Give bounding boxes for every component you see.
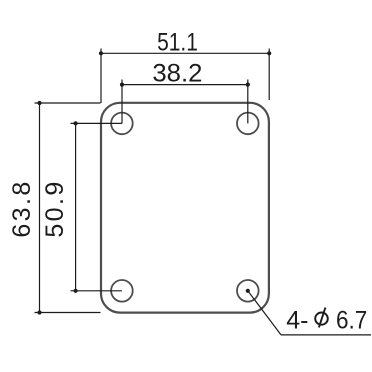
neck plate outline xyxy=(101,103,269,313)
leader dot at bottom-right hole center xyxy=(246,289,250,293)
leader line horizontal xyxy=(281,334,371,336)
hole top-left xyxy=(111,113,133,135)
dimension 38.2 extension line left xyxy=(121,80,123,124)
dimension 38.2 end dot left xyxy=(120,83,124,87)
hole top-right xyxy=(237,113,259,135)
dimension 51.1 extension line left xyxy=(100,49,102,104)
dimension 38.2 extension line right xyxy=(247,80,249,124)
dimension 50.9 extension line bottom xyxy=(71,290,122,292)
dimension 51.1 end dot left xyxy=(99,51,103,55)
dimension 50.9 line xyxy=(75,123,77,290)
dimension 51.1 end dot right xyxy=(267,51,271,55)
svg-text:4-: 4- xyxy=(286,307,308,335)
dimension 63.8 extension line bottom xyxy=(35,312,101,314)
svg-text:38.2: 38.2 xyxy=(152,60,202,88)
svg-text:50.9: 50.9 xyxy=(41,179,69,237)
svg-text:51.1: 51.1 xyxy=(157,28,198,56)
dimension 50.9 end dot bottom xyxy=(74,289,78,293)
hole bottom-right xyxy=(237,280,259,302)
dimension 51.1 line xyxy=(101,52,269,54)
dimension 50.9 extension line top xyxy=(71,122,122,124)
dimension 63.8 extension line top xyxy=(35,102,101,104)
svg-text:6.7: 6.7 xyxy=(336,307,367,335)
leader line diagonal xyxy=(248,291,281,335)
dimension 50.9 end dot top xyxy=(74,121,78,125)
dimension 38.2 end dot right xyxy=(246,83,250,87)
hole bottom-left xyxy=(111,280,133,302)
svg-text:63.8: 63.8 xyxy=(8,179,36,237)
dimension 63.8 line xyxy=(39,103,41,313)
dimension 63.8 end dot bottom xyxy=(37,310,41,314)
dimension 63.8 end dot top xyxy=(37,101,41,105)
dimension 38.2 line xyxy=(122,84,248,86)
dimension 51.1 extension line right xyxy=(268,49,270,101)
hole spec phi symbol xyxy=(315,308,328,328)
